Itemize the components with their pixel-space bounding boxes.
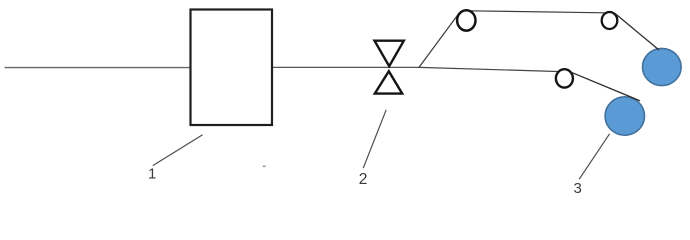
wire: main feed line left of box 1 xyxy=(5,67,191,69)
roller A (upper blue take-up roll) xyxy=(643,48,682,85)
leader line for label 2 xyxy=(363,110,386,168)
wire: top span between pulley P1 and pulley P2 xyxy=(469,11,605,13)
wire: diagonal branch up to pulley P1 xyxy=(419,14,459,68)
wire: diagonal from pulley P3 tangent over roller 3 xyxy=(571,72,640,101)
box 1 (process unit) xyxy=(191,10,273,126)
roller 3 (lower blue take-up roll) xyxy=(605,97,644,135)
valve 2 upper triangle xyxy=(375,41,404,66)
valve 2 lower triangle xyxy=(375,71,402,93)
svg-text:2: 2 xyxy=(359,171,368,188)
wire: line from junction to lower pulley xyxy=(419,67,558,71)
pulley P2 xyxy=(602,12,618,29)
leader line for label 1 xyxy=(153,135,203,166)
svg-text:1: 1 xyxy=(148,166,156,183)
stray dash mark xyxy=(263,166,266,168)
svg-text:3: 3 xyxy=(574,180,582,197)
wire: line between box 1 and valve 2 xyxy=(272,66,419,68)
pulley P3 (lower branch) xyxy=(556,69,573,87)
wire: diagonal from pulley P2 down to roller A xyxy=(615,13,659,50)
pulley P1 xyxy=(457,10,475,30)
leader line for label 3 xyxy=(579,134,609,179)
